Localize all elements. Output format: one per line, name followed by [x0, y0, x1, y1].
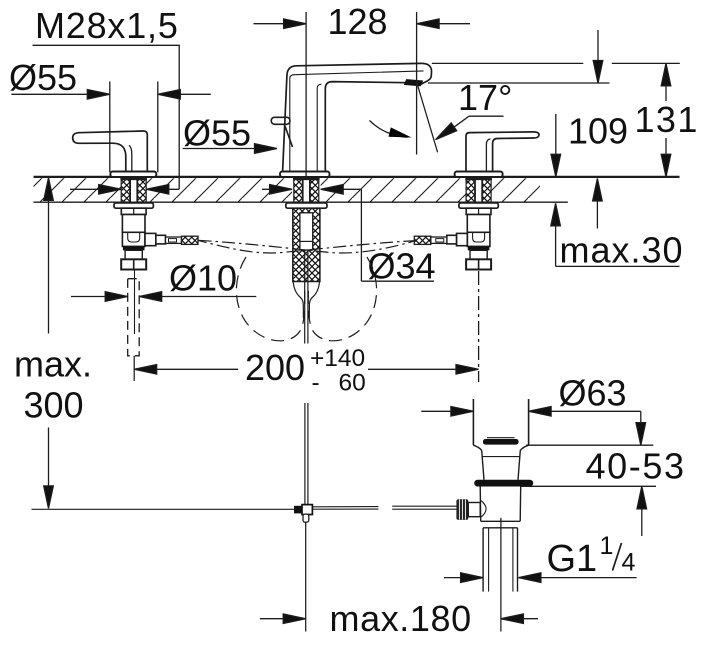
- drain centerline: [500, 518, 502, 632]
- ball joint arc inside drain body: [480, 500, 486, 518]
- dimension M28x1,5: [33, 5, 180, 194]
- svg-text:Ø10: Ø10: [169, 258, 237, 299]
- angle arc: [370, 121, 408, 138]
- svg-text:4: 4: [622, 549, 636, 577]
- drain side knob (knurled): [456, 499, 468, 520]
- svg-text:max.180: max.180: [330, 598, 472, 639]
- svg-text:max.30: max.30: [560, 230, 684, 271]
- drain body below seal: [480, 487, 521, 528]
- right handle threaded shank through counter: [465, 179, 492, 202]
- dimension 17 degrees: [436, 77, 513, 140]
- drain: upper Ø63 cylinder: [473, 399, 528, 445]
- spout height reference lines: [428, 63, 680, 83]
- flexible hose outlets under tube: [293, 282, 319, 319]
- svg-text:109: 109: [568, 111, 628, 152]
- dimension max.180: [260, 598, 538, 639]
- right valve side outlet fitting: [414, 233, 467, 245]
- linkage block: [294, 506, 302, 514]
- svg-text:+140: +140: [310, 345, 365, 372]
- water jet line (17 degrees): [417, 83, 438, 152]
- aerator (spout outlet): [405, 80, 423, 86]
- left valve body below counter: [114, 203, 153, 270]
- svg-text:Ø55: Ø55: [9, 57, 77, 98]
- left handle threaded shank through counter: [120, 179, 147, 202]
- drain flare + neck: [473, 445, 528, 480]
- left handle lever: [73, 131, 148, 172]
- faucet lever (center): [271, 117, 292, 147]
- left handle base plate: [110, 172, 156, 177]
- svg-text:131: 131: [635, 99, 699, 140]
- dimension 40-53: [520, 445, 685, 536]
- dimension max.300: [14, 178, 92, 509]
- hose loop left (dashed): [236, 257, 304, 341]
- dimension Ø55 (center faucet): [183, 113, 277, 154]
- drain rubber seal (black): [474, 480, 533, 487]
- svg-text:Ø63: Ø63: [559, 373, 627, 414]
- dimension Ø55 (left handle): [9, 57, 211, 172]
- dimension 131: [635, 63, 699, 176]
- dimension Ø63: [421, 373, 645, 446]
- svg-text:40-53: 40-53: [586, 446, 686, 487]
- flexible hose centerline left-right (dash-dot): [199, 240, 417, 253]
- dimension 128: [254, 1, 471, 177]
- pop-up rod in center tube: [305, 250, 308, 344]
- svg-text:300: 300: [24, 385, 84, 426]
- pop-up rod lower part: [305, 403, 308, 505]
- centerline below rod to max.180: [305, 522, 307, 631]
- svg-text:60: 60: [339, 370, 366, 397]
- left valve side outlet fitting: [145, 233, 198, 245]
- svg-text:200: 200: [245, 347, 305, 388]
- dimension G1 1/4: [444, 532, 637, 582]
- left pull rod (solid): [134, 270, 136, 335]
- svg-text:Ø55: Ø55: [183, 113, 251, 154]
- right valve body below counter: [459, 203, 498, 270]
- right handle base plate: [455, 172, 503, 177]
- left pull rod alternative position (dashed, Ø10): [128, 279, 140, 356]
- faucet base plate (center): [280, 172, 330, 177]
- horizontal reference line (max.300 bottom): [32, 508, 295, 510]
- svg-text:G1: G1: [547, 538, 598, 580]
- svg-text:1: 1: [600, 532, 614, 560]
- svg-text:M28x1,5: M28x1,5: [35, 5, 179, 46]
- center threaded tube below counter: [286, 203, 327, 282]
- left hole centerline: [133, 356, 135, 381]
- dimension 109: [551, 30, 628, 177]
- dimension Ø10: [71, 258, 256, 302]
- hose loop right (dashed): [308, 257, 376, 341]
- dimension Ø34: [262, 185, 436, 287]
- horizontal linkage rod segments: [313, 506, 457, 509]
- dimension 200 +140/-60: [134, 271, 478, 397]
- svg-text:128: 128: [328, 1, 388, 42]
- svg-text:Ø34: Ø34: [368, 246, 436, 287]
- countertop hatched section: [34, 177, 680, 202]
- faucet spout body: [283, 63, 432, 171]
- svg-text:max.: max.: [14, 343, 92, 384]
- drain tailpipe: [483, 528, 517, 592]
- right handle lever: [466, 132, 539, 172]
- rod end stub below block: [303, 514, 309, 522]
- drain plug cap: [487, 437, 515, 439]
- center faucet threaded shank through counter: [293, 179, 320, 202]
- svg-text:-: -: [312, 370, 320, 397]
- dimension max.30: [551, 179, 684, 271]
